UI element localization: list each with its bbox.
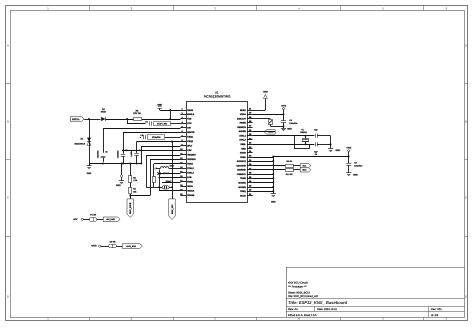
U1 right pins 41-21 with numbers and names bbox=[236, 107, 252, 197]
svg-text:CW: CW bbox=[187, 127, 191, 130]
power symbol +3V3 bottom bbox=[91, 244, 101, 247]
wire U1 pin 8 to C1 branch bbox=[137, 142, 181, 153]
svg-text:Rev: V01: Rev: V01 bbox=[431, 308, 442, 311]
wire pin10 row bbox=[122, 149, 180, 151]
svg-text:P1 0R: P1 0R bbox=[90, 214, 96, 217]
value box 47uF / 36V bbox=[154, 122, 171, 126]
wire GND flag to pin 1 bbox=[160, 110, 181, 112]
wire K2 to label bbox=[117, 246, 123, 248]
power symbol +3V3 right bbox=[346, 147, 352, 157]
svg-text:ANAOUT: ANAOUT bbox=[237, 117, 247, 120]
svg-text:VDD2RV: VDD2RV bbox=[187, 154, 196, 157]
svg-text:27R 1W: 27R 1W bbox=[133, 112, 141, 115]
ground rail wire bbox=[89, 163, 142, 165]
svg-text:XTAL1: XTAL1 bbox=[239, 134, 246, 137]
svg-text:CSB/SC1: CSB/SC1 bbox=[237, 173, 247, 176]
svg-text:GND: GND bbox=[335, 149, 340, 152]
wire D2 to R5 with junction bbox=[105, 118, 133, 120]
wire P1 to label bbox=[97, 219, 103, 221]
svg-text:Sheet: /KNX_BCU/: Sheet: /KNX_BCU/ bbox=[288, 291, 310, 294]
svg-text:SAVEB: SAVEB bbox=[239, 130, 247, 133]
svg-text:KiCad E.D.A. kicad 7.0.5: KiCad E.D.A. kicad 7.0.5 bbox=[288, 314, 317, 317]
capacitor C3 100n/50v bbox=[96, 150, 107, 162]
svg-text:+3V3: +3V3 bbox=[281, 104, 287, 107]
ground bus bottom bbox=[271, 194, 276, 204]
global label SAVEB at pin 36 bbox=[253, 130, 276, 134]
svg-text:VDDA: VDDA bbox=[240, 113, 246, 116]
svg-text:GND: GND bbox=[157, 104, 162, 107]
svg-text:Size: A4: Size: A4 bbox=[288, 308, 298, 311]
wire pin9 branch down to rail bbox=[141, 146, 180, 164]
svg-text:SCK/SC2: SCK/SC2 bbox=[237, 160, 247, 163]
svg-text:GND: GND bbox=[116, 184, 121, 187]
svg-text:100n/50v: 100n/50v bbox=[96, 150, 99, 158]
capacitor C9 100u/50v bbox=[346, 156, 362, 172]
wire XTAL1 row bbox=[253, 135, 315, 139]
wire C5 box to U1 pin 7 bbox=[165, 137, 181, 139]
U1 left pins 1-20 with numbers and names bbox=[180, 107, 196, 197]
svg-text:TXD: TXD bbox=[187, 118, 192, 121]
svg-text:33k: 33k bbox=[133, 190, 136, 193]
svg-text:FSW1: FSW1 bbox=[187, 181, 194, 184]
junction fuse right bbox=[171, 186, 173, 188]
svg-text:SMAJ40CA: SMAJ40CA bbox=[74, 143, 85, 146]
power flag GND top right bbox=[263, 91, 268, 99]
svg-text:XTAL2: XTAL2 bbox=[187, 167, 194, 170]
capacitor C5 bbox=[141, 134, 146, 139]
box component lower cluster bbox=[153, 177, 173, 188]
wire vertical row8 to label 2 bbox=[171, 141, 173, 199]
svg-text:CRV: CRV bbox=[187, 149, 192, 152]
right side bus to ground bbox=[272, 155, 274, 193]
wire +3V3 to pin 40 bbox=[253, 114, 284, 116]
resistor R3 2.2k bbox=[129, 164, 137, 183]
svg-text:CEQ1: CEQ1 bbox=[187, 136, 194, 139]
capacitor C2 100n/50v bbox=[116, 149, 127, 163]
global label +5V_KNX bbox=[103, 217, 120, 222]
svg-text:FANIN: FANIN bbox=[240, 122, 247, 125]
title block bbox=[286, 267, 465, 317]
ferrite bead L2 bbox=[253, 119, 285, 128]
svg-text:RESETB: RESETB bbox=[237, 126, 246, 129]
svg-text:BUSL2: BUSL2 bbox=[187, 113, 195, 116]
svg-text:GND: GND bbox=[87, 172, 92, 175]
jumper P1 0R bbox=[83, 214, 96, 222]
junction on R5 row bbox=[169, 118, 171, 120]
svg-text:CCP: CCP bbox=[187, 122, 192, 125]
wire KNX2-L to node bbox=[84, 119, 89, 121]
resistor R12 0R bbox=[253, 169, 301, 177]
svg-text:CEQ2: CEQ2 bbox=[187, 140, 194, 143]
svg-text:KNX_SAVE: KNX_SAVE bbox=[129, 202, 132, 214]
wire junction down to pin 4 row bbox=[127, 119, 146, 124]
svg-text:File: KNX_BCU.kicad_sch: File: KNX_BCU.kicad_sch bbox=[288, 295, 319, 298]
svg-text:47uF / 36V: 47uF / 36V bbox=[157, 122, 168, 125]
svg-text:+3V3: +3V3 bbox=[91, 244, 97, 247]
svg-text:Title: ESP32_KNX_ Baseboard: Title: ESP32_KNX_ Baseboard bbox=[288, 300, 348, 305]
capacitor C6 n.f. bbox=[314, 142, 330, 156]
wire C5 left stub bbox=[140, 137, 141, 139]
junction pin1 net bbox=[169, 109, 171, 111]
svg-text:220u/50v: 220u/50v bbox=[152, 136, 162, 139]
wire R5 to U1 pin 3 bbox=[142, 119, 181, 121]
global label SCL bbox=[300, 164, 311, 168]
svg-text:KNX BCU Circuit: KNX BCU Circuit bbox=[288, 282, 308, 285]
svg-text:XCLK: XCLK bbox=[240, 194, 246, 197]
svg-text:K2 0R: K2 0R bbox=[110, 240, 116, 243]
global label SDA bbox=[300, 168, 311, 172]
wire C4 box to U1 pin 4 bbox=[170, 123, 180, 125]
svg-text:A: A bbox=[465, 43, 467, 47]
ground symbol left rail bbox=[86, 164, 91, 176]
wire lower-left rail bbox=[130, 195, 150, 197]
svg-text:100n/50v: 100n/50v bbox=[116, 150, 119, 158]
wire pin17 row bbox=[162, 182, 180, 184]
svg-text:SS16: SS16 bbox=[101, 111, 107, 114]
junction fuse left bbox=[158, 186, 160, 188]
wire crystal loop bbox=[294, 136, 310, 149]
svg-text:GND: GND bbox=[353, 173, 358, 176]
capacitor C8 100n/50v bbox=[281, 119, 298, 128]
wire XTAL2 row bbox=[253, 142, 315, 146]
wire crystal caps to ground bbox=[330, 136, 332, 149]
svg-text:VDD2HC: VDD2HC bbox=[187, 158, 196, 161]
svg-text:GND: GND bbox=[287, 128, 292, 131]
svg-text:NCN5130MNTWG: NCN5130MNTWG bbox=[204, 95, 231, 99]
svg-text:+5V_KNX: +5V_KNX bbox=[106, 218, 116, 221]
wire VSSD rail to C9 bbox=[273, 155, 349, 157]
svg-text:100u/50v: 100u/50v bbox=[354, 165, 362, 168]
svg-text:VBUS: VBUS bbox=[187, 109, 193, 112]
power symbol +5V bbox=[73, 218, 83, 221]
power symbol +3V3 at VDDA bbox=[281, 104, 287, 114]
capacitor C7 n.f. bbox=[314, 129, 330, 138]
wire U1 pin 6 to C2 branch bbox=[123, 133, 180, 154]
wire pin12 branch down-left bbox=[150, 159, 180, 195]
vertical global label KNX_SAVE bbox=[127, 199, 133, 218]
svg-text:TRSB: TRSB bbox=[240, 177, 246, 180]
resistor R5 27R 1W bbox=[133, 109, 141, 120]
svg-text:16MHz: 16MHz bbox=[300, 131, 307, 134]
svg-text:KTAL2: KTAL2 bbox=[187, 172, 194, 175]
svg-text:VDD1B: VDD1B bbox=[187, 194, 195, 197]
svg-text:VDD1A: VDD1A bbox=[187, 190, 195, 193]
svg-text:+3V3: +3V3 bbox=[346, 147, 352, 150]
diode D1 SMAJ40CA TVS bbox=[74, 138, 91, 146]
fuse F1 cluster bbox=[159, 186, 172, 190]
svg-text:MODE2: MODE2 bbox=[238, 186, 246, 189]
svg-text:R8 0R: R8 0R bbox=[286, 160, 292, 163]
svg-text:1u/50v: 1u/50v bbox=[130, 151, 133, 157]
wire pin16 row bbox=[159, 177, 181, 179]
svg-text:VDD2: VDD2 bbox=[187, 163, 193, 166]
wire pin14 row to L1 bbox=[172, 168, 180, 170]
capacitor C10 cluster bbox=[157, 170, 161, 188]
svg-text:VSSD: VSSD bbox=[240, 156, 246, 159]
svg-text:VDD1: VDD1 bbox=[187, 185, 193, 188]
wire pin13 branch to box component bbox=[154, 164, 181, 177]
svg-text:XTAL2: XTAL2 bbox=[239, 139, 246, 142]
svg-text:+3V3_KNX: +3V3_KNX bbox=[126, 245, 137, 248]
svg-text:B: B bbox=[465, 119, 467, 123]
global label +3V3_KNX bbox=[122, 244, 142, 249]
svg-text:GND: GND bbox=[263, 91, 268, 94]
global label KNX2-L bbox=[70, 117, 84, 121]
svg-text:+5V: +5V bbox=[73, 218, 78, 221]
ground crystal bbox=[328, 149, 341, 152]
node junction at KNX bus bbox=[88, 118, 90, 120]
wire pin15 row bbox=[158, 173, 180, 175]
wires right pins to bus bbox=[253, 158, 274, 192]
wire pin11 branch down-left bbox=[146, 155, 180, 188]
wire GND flag to pin 41 bbox=[253, 99, 266, 111]
svg-text:2.2k: 2.2k bbox=[133, 179, 137, 182]
power flag circle and ground mid bbox=[116, 164, 124, 188]
svg-text:A: A bbox=[7, 43, 9, 47]
value box 220u/50v bbox=[148, 135, 165, 140]
svg-text:RXD: RXD bbox=[241, 147, 246, 150]
svg-text:GND: GND bbox=[271, 201, 276, 204]
wire VDDA down to C8 bbox=[283, 114, 285, 120]
wire pin19 row bbox=[159, 187, 180, 191]
svg-text:VDDD: VDDD bbox=[240, 152, 246, 155]
svg-text:MODE1: MODE1 bbox=[238, 182, 246, 185]
svg-text:C6: C6 bbox=[315, 153, 317, 156]
power flag GND small cluster bbox=[170, 164, 175, 167]
svg-text:SDO/THD: SDO/THD bbox=[236, 164, 246, 167]
resistor R8 0R bbox=[253, 160, 301, 168]
IC U1 NCN5130MNTWG body bbox=[187, 90, 248, 202]
resistor R4 33k bbox=[129, 182, 137, 193]
svg-text:C3: C3 bbox=[105, 151, 107, 154]
jumper K2 0R bbox=[101, 240, 117, 248]
svg-text:XFLT: XFLT bbox=[187, 145, 193, 148]
svg-text:Id: 2/3: Id: 2/3 bbox=[431, 314, 439, 317]
wire U1 pin 5 to C3 branch bbox=[103, 128, 180, 153]
wire R4 to vertical label bbox=[129, 194, 131, 199]
svg-text:R12 0R: R12 0R bbox=[286, 173, 293, 176]
capacitor C4 bbox=[145, 120, 151, 125]
svg-text:NRSTB: NRSTB bbox=[187, 131, 195, 134]
ground C9 bbox=[346, 173, 358, 177]
svg-text:LDB: LDB bbox=[187, 176, 192, 179]
svg-text:KNX2-L: KNX2-L bbox=[72, 118, 80, 121]
svg-text:SDA: SDA bbox=[302, 169, 307, 172]
power flag GND at U1 pin 1 bbox=[157, 104, 162, 110]
svg-text:*** Prototype ***: *** Prototype *** bbox=[288, 286, 307, 289]
svg-text:B: B bbox=[7, 119, 9, 123]
svg-text:Date: 2024-10-11: Date: 2024-10-11 bbox=[317, 308, 338, 311]
svg-text:100n/50v: 100n/50v bbox=[289, 122, 297, 125]
svg-text:EPAD: EPAD bbox=[240, 109, 246, 112]
wire vertical pin1 to pin3 row bbox=[170, 110, 172, 119]
svg-text:SDI/RHD: SDI/RHD bbox=[237, 169, 246, 172]
svg-text:KNX_20V: KNX_20V bbox=[171, 204, 174, 214]
diode D2 SS16 bbox=[89, 108, 107, 121]
capacitor C1 1u/50v bbox=[130, 149, 141, 163]
ground C8 bbox=[281, 128, 292, 131]
inductor L1 220uF cluster bbox=[155, 167, 172, 175]
wire node down to ground rail bbox=[89, 119, 91, 164]
junction VDDA node bbox=[283, 113, 285, 115]
crystal Y1 16MHz bbox=[300, 128, 309, 141]
svg-text:XSEL: XSEL bbox=[240, 143, 246, 146]
vertical global label KNX_20V bbox=[169, 199, 175, 220]
svg-text:TREQ: TREQ bbox=[240, 190, 246, 193]
